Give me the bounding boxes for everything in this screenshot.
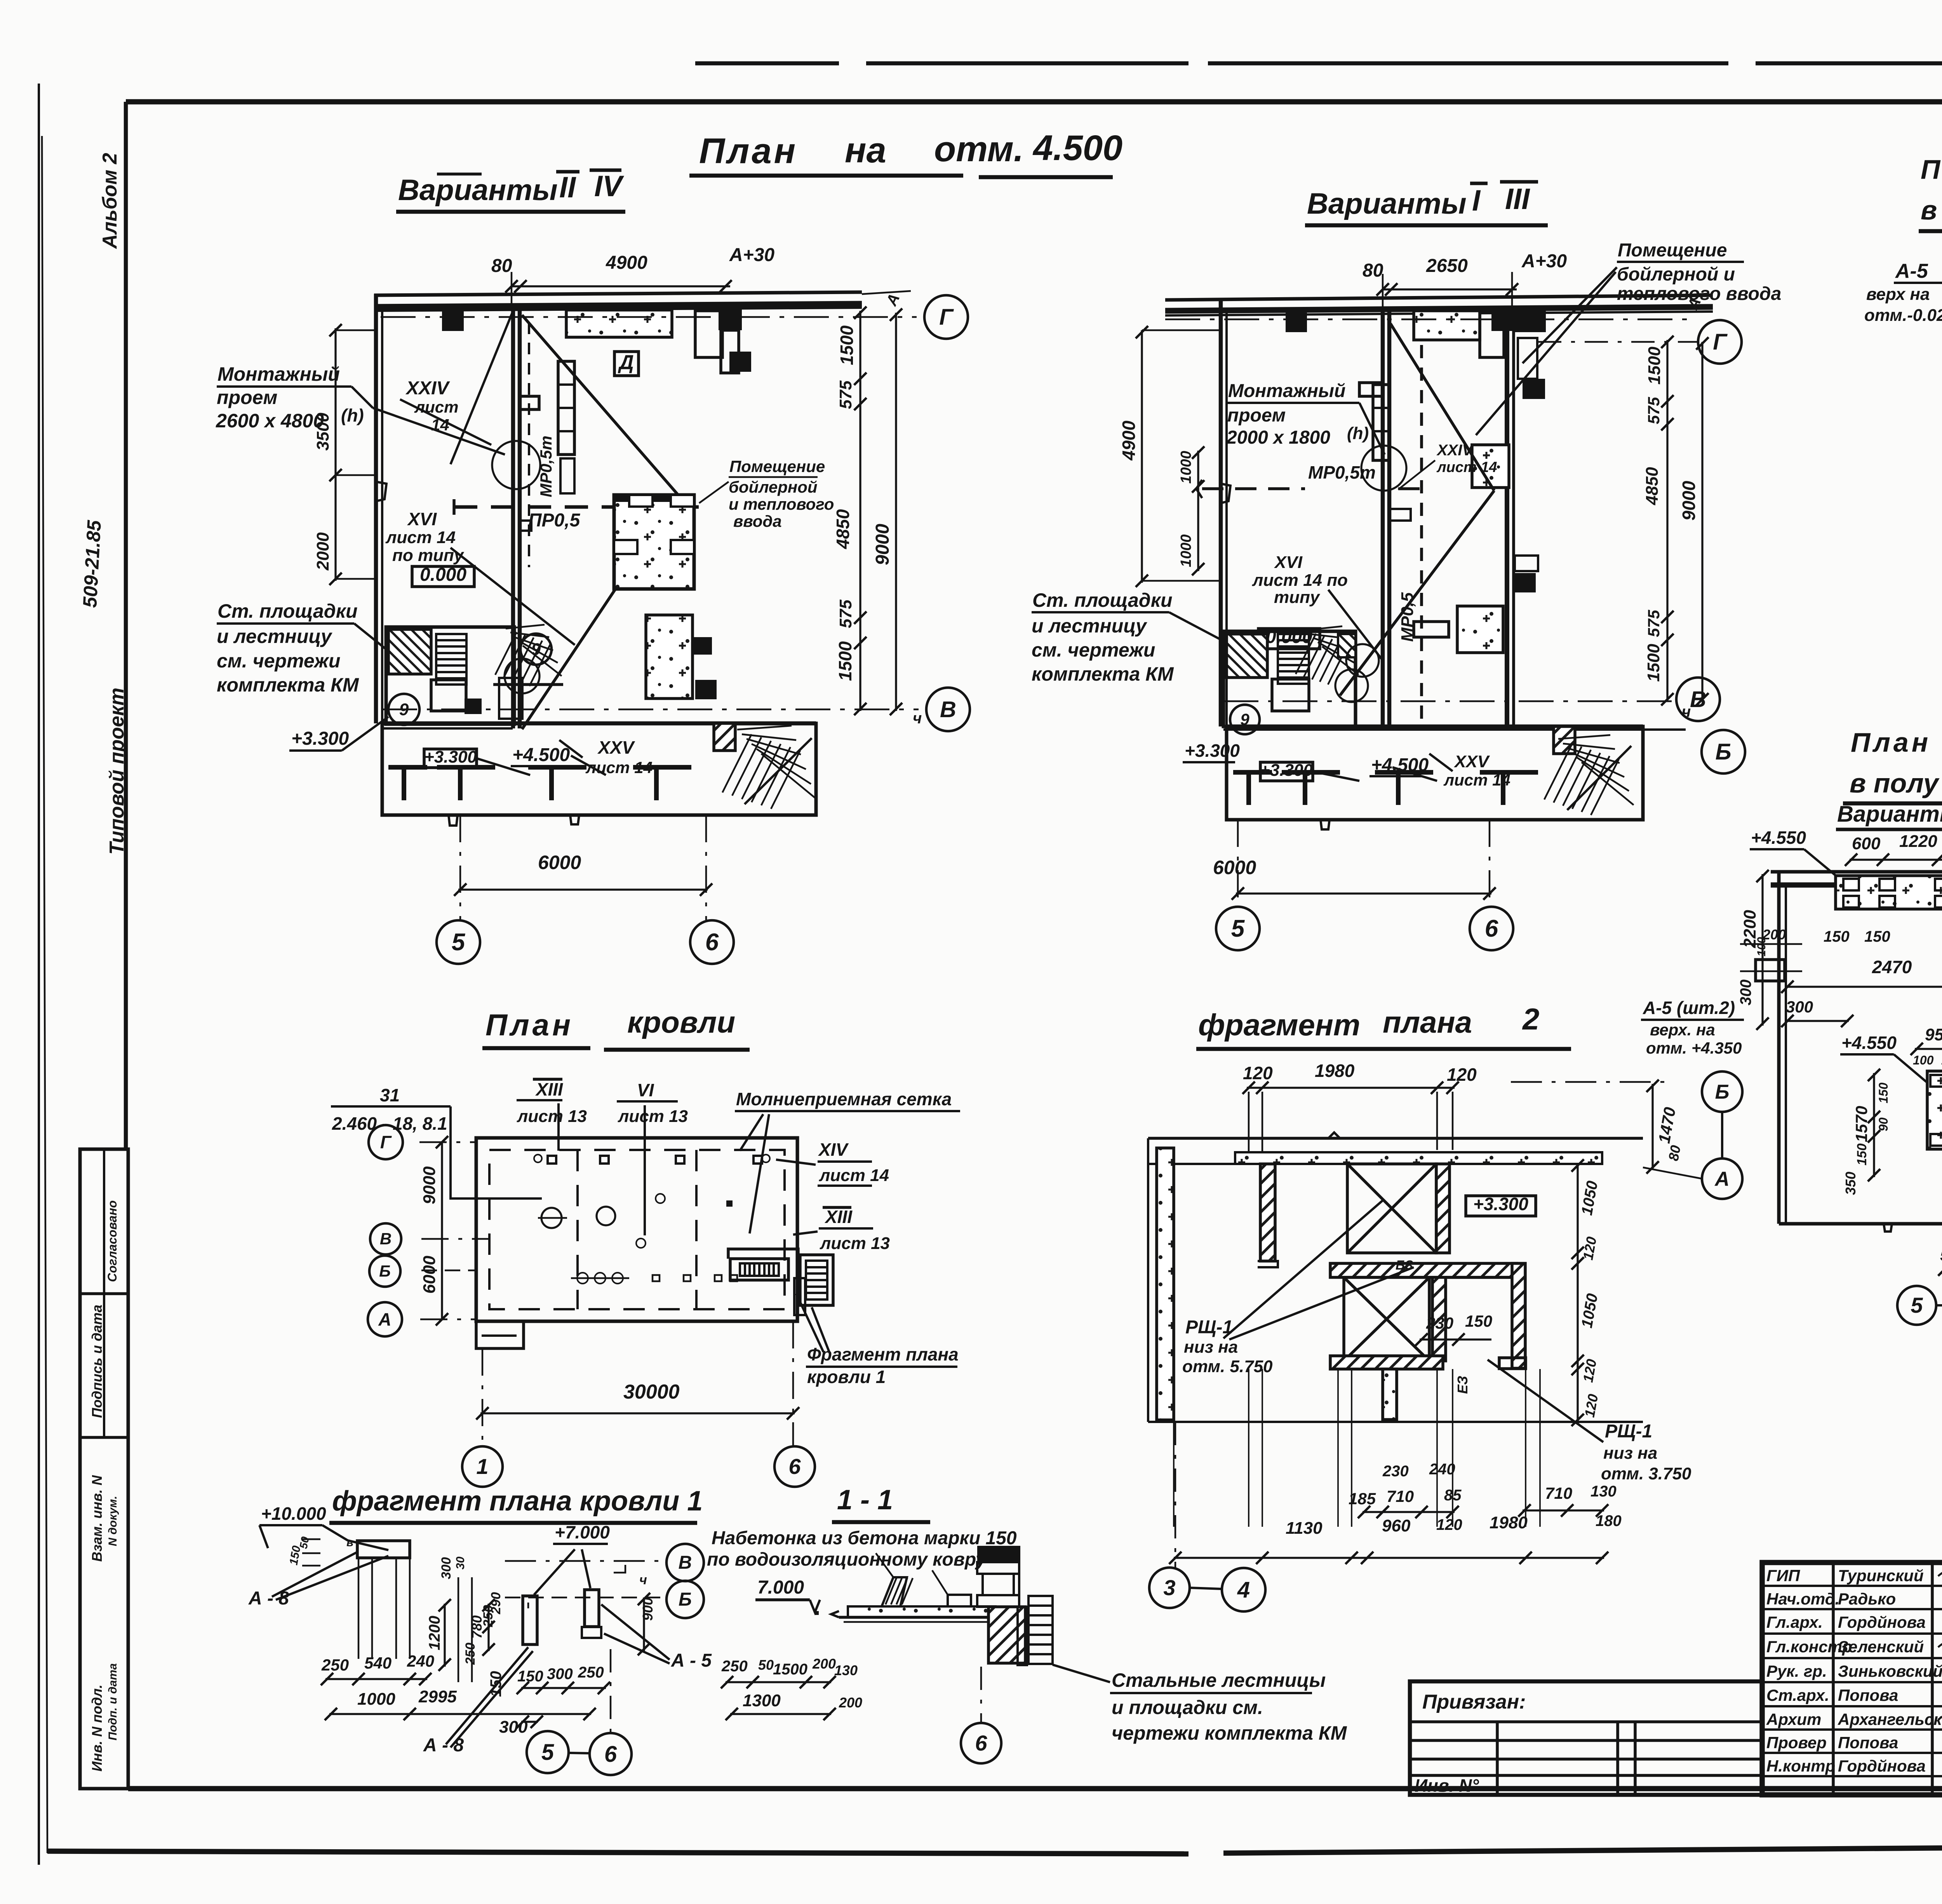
svg-text:1570: 1570 xyxy=(1852,1106,1871,1142)
svg-text:в полу на отм 0.00: в полу на отм 0.000 xyxy=(1921,195,1942,225)
svg-text:лист 13: лист 13 xyxy=(820,1234,890,1253)
svg-text:+3.300: +3.300 xyxy=(1260,761,1313,780)
svg-text:1980: 1980 xyxy=(1315,1061,1355,1081)
svg-text:Ст.арх.: Ст.арх. xyxy=(1766,1686,1829,1704)
svg-text:верх на: верх на xyxy=(1866,285,1930,304)
svg-text:5: 5 xyxy=(1911,1293,1923,1317)
svg-text:+4.500: +4.500 xyxy=(1371,755,1429,775)
svg-text:Туринский: Туринский xyxy=(1838,1566,1924,1585)
svg-text:200: 200 xyxy=(812,1656,836,1672)
svg-text:80: 80 xyxy=(1665,1144,1684,1162)
svg-text:1: 1 xyxy=(476,1454,488,1479)
svg-text:В: В xyxy=(679,1552,692,1573)
svg-text:верх. на: верх. на xyxy=(1650,1021,1715,1039)
svg-text:6: 6 xyxy=(788,1454,801,1479)
svg-text:лист 13: лист 13 xyxy=(517,1107,587,1126)
svg-text:плана: плана xyxy=(1383,1005,1472,1039)
svg-text:Альбом 2: Альбом 2 xyxy=(99,153,121,249)
svg-text:250: 250 xyxy=(321,1656,349,1674)
svg-text:+3.300: +3.300 xyxy=(424,747,477,766)
svg-text:лист: лист xyxy=(414,398,459,416)
svg-text:1000: 1000 xyxy=(1178,451,1194,484)
svg-text:31: 31 xyxy=(380,1085,400,1105)
svg-text:N докум.: N докум. xyxy=(106,1496,119,1546)
svg-text:575: 575 xyxy=(836,380,855,409)
svg-text:600: 600 xyxy=(1852,834,1881,853)
svg-text:XXV: XXV xyxy=(1453,752,1490,771)
svg-text:230: 230 xyxy=(1382,1463,1409,1480)
svg-text:180: 180 xyxy=(1596,1512,1622,1529)
svg-text:Попова: Попова xyxy=(1838,1686,1898,1704)
svg-text:План: План xyxy=(699,131,798,171)
svg-text:80: 80 xyxy=(1363,260,1383,281)
svg-text:лист 14: лист 14 xyxy=(819,1166,889,1185)
svg-text:теплового ввода: теплового ввода xyxy=(1617,284,1781,304)
svg-text:6000: 6000 xyxy=(420,1256,439,1294)
svg-text:Попова: Попова xyxy=(1838,1733,1898,1752)
svg-text:лист 14: лист 14 xyxy=(385,528,456,547)
svg-text:1500: 1500 xyxy=(837,325,857,365)
svg-text:(h): (h) xyxy=(341,405,364,425)
svg-text:9000: 9000 xyxy=(420,1166,439,1204)
svg-text:(h): (h) xyxy=(1347,424,1369,443)
svg-text:проем: проем xyxy=(1227,405,1286,426)
svg-text:Монтажный: Монтажный xyxy=(218,363,340,385)
svg-text:6: 6 xyxy=(975,1731,987,1755)
svg-text:на: на xyxy=(845,131,886,170)
svg-text:кровли: кровли xyxy=(627,1005,735,1039)
svg-text:130: 130 xyxy=(834,1662,858,1678)
svg-text:в: в xyxy=(346,1536,353,1549)
svg-text:300: 300 xyxy=(547,1665,573,1683)
svg-text:7.000: 7.000 xyxy=(757,1577,804,1598)
svg-text:II: II xyxy=(559,171,576,204)
svg-text:Подпись и дата: Подпись и дата xyxy=(89,1305,105,1418)
svg-text:А: А xyxy=(378,1309,391,1329)
svg-text:лист 14 по: лист 14 по xyxy=(1252,571,1348,590)
svg-text:1980: 1980 xyxy=(1490,1513,1528,1532)
svg-text:Гордйнова: Гордйнова xyxy=(1838,1757,1926,1775)
svg-text:150: 150 xyxy=(1824,928,1850,945)
svg-text:240: 240 xyxy=(1429,1461,1455,1478)
svg-text:Рук. гр.: Рук. гр. xyxy=(1766,1662,1827,1680)
svg-text:Н.контр: Н.контр xyxy=(1766,1757,1835,1775)
svg-text:IV: IV xyxy=(594,170,624,203)
svg-text:150: 150 xyxy=(1855,1143,1869,1165)
svg-text:150: 150 xyxy=(1876,1082,1890,1103)
svg-text:по водоизоляционному ковру: по водоизоляционному ковру xyxy=(707,1549,987,1570)
svg-text:230: 230 xyxy=(1426,1314,1453,1332)
svg-text:+10.000: +10.000 xyxy=(261,1503,326,1524)
svg-text:1500: 1500 xyxy=(835,641,855,681)
svg-text:III: III xyxy=(1505,183,1530,216)
svg-text:150: 150 xyxy=(1465,1312,1492,1330)
svg-text:120: 120 xyxy=(1447,1064,1477,1085)
svg-text:Д: Д xyxy=(618,351,634,374)
svg-text:2.460 - 18, 8.1: 2.460 - 18, 8.1 xyxy=(332,1113,447,1134)
svg-text:1500: 1500 xyxy=(1645,347,1664,385)
svg-text:Варианты: Варианты xyxy=(398,174,558,207)
svg-text:ч: ч xyxy=(913,710,922,727)
svg-text:проем: проем xyxy=(217,387,277,408)
svg-text:Г: Г xyxy=(1713,329,1728,355)
svg-text:50: 50 xyxy=(758,1657,774,1673)
svg-text:+3.300: +3.300 xyxy=(1473,1194,1528,1214)
svg-text:и лестницу: и лестницу xyxy=(1032,615,1147,637)
svg-text:VI: VI xyxy=(637,1080,654,1100)
svg-text:Монтажный: Монтажный xyxy=(1228,381,1345,401)
svg-text:+4.550: +4.550 xyxy=(1841,1033,1897,1053)
svg-text:4900: 4900 xyxy=(606,253,647,273)
svg-text:Помещение: Помещение xyxy=(729,457,825,476)
svg-text:фрагмент: фрагмент xyxy=(1198,1008,1360,1042)
svg-text:В: В xyxy=(940,697,956,722)
svg-text:Радько: Радько xyxy=(1838,1590,1896,1608)
svg-text:чертежи комплекта КМ: чертежи комплекта КМ xyxy=(1112,1722,1347,1744)
svg-text:+4.550: +4.550 xyxy=(1751,827,1806,848)
svg-text:2000: 2000 xyxy=(313,532,332,571)
svg-text:Молниеприемная сетка: Молниеприемная сетка xyxy=(736,1089,952,1109)
svg-text:комплекта КМ: комплекта КМ xyxy=(1032,663,1174,685)
svg-text:710: 710 xyxy=(1545,1484,1572,1502)
svg-text:4850: 4850 xyxy=(1643,467,1662,505)
svg-text:1220: 1220 xyxy=(1899,832,1937,851)
svg-text:Б: Б xyxy=(679,1589,692,1610)
svg-text:+4.500: +4.500 xyxy=(512,745,570,765)
svg-text:2470: 2470 xyxy=(1872,957,1912,977)
svg-text:1130: 1130 xyxy=(1286,1519,1323,1538)
svg-text:5: 5 xyxy=(1231,915,1245,942)
svg-text:лист 14: лист 14 xyxy=(585,758,653,777)
svg-text:Гордйнова: Гордйнова xyxy=(1838,1613,1926,1631)
svg-text:1300: 1300 xyxy=(743,1691,781,1710)
svg-text:План закладных деталей: План закладных деталей xyxy=(1921,154,1942,185)
svg-text:отм. +4.350: отм. +4.350 xyxy=(1646,1039,1742,1057)
svg-text:120: 120 xyxy=(1436,1516,1462,1533)
svg-text:100: 100 xyxy=(1913,1053,1934,1067)
svg-text:Гл.арх.: Гл.арх. xyxy=(1766,1613,1823,1631)
svg-text:710: 710 xyxy=(1387,1487,1414,1505)
svg-text:Взам. инв. N: Взам. инв. N xyxy=(89,1475,105,1562)
svg-text:6: 6 xyxy=(1485,915,1498,942)
svg-text:Ст. площадки: Ст. площадки xyxy=(1032,589,1173,611)
svg-text:План: План xyxy=(486,1008,574,1042)
svg-text:130: 130 xyxy=(1590,1483,1617,1500)
svg-text:250: 250 xyxy=(463,1643,478,1665)
svg-text:960: 960 xyxy=(1382,1516,1411,1535)
svg-text:4850: 4850 xyxy=(833,509,853,549)
svg-text:6: 6 xyxy=(705,929,719,956)
svg-text:9000: 9000 xyxy=(1679,481,1699,521)
svg-text:1000: 1000 xyxy=(357,1690,395,1709)
svg-text:Подп. и дата: Подп. и дата xyxy=(106,1663,119,1740)
svg-text:2000 х 1800: 2000 х 1800 xyxy=(1226,427,1330,448)
svg-text:Нач.отд.: Нач.отд. xyxy=(1766,1590,1839,1608)
svg-text:30000: 30000 xyxy=(623,1381,680,1403)
svg-text:+3.300: +3.300 xyxy=(1185,740,1240,761)
svg-text:Привязан:: Привязан: xyxy=(1422,1691,1526,1713)
svg-text:Зеленский: Зеленский xyxy=(1838,1637,1924,1656)
svg-text:Помещение: Помещение xyxy=(1618,240,1727,261)
svg-text:отм.-0.020: отм.-0.020 xyxy=(1864,306,1942,325)
svg-text:А+30: А+30 xyxy=(729,245,774,265)
svg-text:А - 5: А - 5 xyxy=(671,1650,712,1671)
svg-text:XXIV: XXIV xyxy=(405,378,450,399)
svg-text:низ на: низ на xyxy=(1603,1444,1657,1463)
svg-text:в полу на отм. 4.500: в полу на отм. 4.500 xyxy=(1850,768,1942,798)
svg-text:2: 2 xyxy=(1522,1002,1539,1036)
svg-text:А+30: А+30 xyxy=(1521,251,1567,272)
svg-text:отм. 3.750: отм. 3.750 xyxy=(1601,1464,1691,1483)
svg-text:Г: Г xyxy=(939,305,954,330)
svg-text:Набетонка из бетона марки 150: Набетонка из бетона марки 150 xyxy=(712,1528,1017,1549)
svg-text:+3.300: +3.300 xyxy=(291,728,349,749)
svg-text:240: 240 xyxy=(407,1652,434,1670)
svg-text:150: 150 xyxy=(1864,928,1890,945)
svg-text:XIV: XIV xyxy=(818,1139,849,1160)
svg-text:кровли 1: кровли 1 xyxy=(807,1367,886,1387)
svg-text:575: 575 xyxy=(836,599,855,628)
svg-text:575: 575 xyxy=(1644,397,1663,424)
svg-text:ГИП: ГИП xyxy=(1766,1566,1800,1585)
svg-text:I: I xyxy=(1472,184,1481,217)
svg-text:лист 13: лист 13 xyxy=(618,1107,688,1126)
svg-text:и теплового: и теплового xyxy=(729,495,834,513)
svg-text:Варианты: Варианты xyxy=(1307,187,1467,220)
svg-text:150: 150 xyxy=(517,1668,543,1685)
svg-text:9000: 9000 xyxy=(872,524,893,565)
svg-text:Б: Б xyxy=(1715,739,1731,765)
svg-text:лист 14: лист 14 xyxy=(1436,459,1497,476)
svg-text:отм.: отм. xyxy=(934,129,1023,169)
svg-text:550: 550 xyxy=(1940,1246,1942,1265)
svg-text:2200: 2200 xyxy=(1740,910,1759,948)
svg-text:комплекта КМ: комплекта КМ xyxy=(217,674,359,696)
svg-text:300: 300 xyxy=(1786,998,1813,1016)
svg-text:бойлерной: бойлерной xyxy=(729,478,818,496)
svg-text:и площадки см.: и площадки см. xyxy=(1112,1697,1263,1718)
svg-text:по типу: по типу xyxy=(392,546,465,565)
svg-text:3: 3 xyxy=(1163,1575,1175,1600)
svg-text:30: 30 xyxy=(454,1556,467,1570)
svg-text:В: В xyxy=(380,1230,392,1248)
svg-text:XIII: XIII xyxy=(824,1207,853,1227)
svg-text:0.000: 0.000 xyxy=(420,564,466,585)
svg-text:540: 540 xyxy=(364,1654,392,1672)
svg-text:1000: 1000 xyxy=(1178,534,1194,567)
svg-text:1500: 1500 xyxy=(773,1661,807,1678)
svg-text:Г: Г xyxy=(380,1132,392,1152)
svg-text:50: 50 xyxy=(297,1536,311,1550)
svg-text:120: 120 xyxy=(1243,1063,1273,1083)
svg-text:ПР0,5: ПР0,5 xyxy=(528,510,581,531)
svg-text:4900: 4900 xyxy=(1119,420,1139,461)
svg-text:А: А xyxy=(1714,1168,1730,1190)
svg-text:бойлерной и: бойлерной и xyxy=(1617,264,1735,285)
svg-text:XIII: XIII xyxy=(535,1079,563,1099)
svg-text:4: 4 xyxy=(1237,1577,1250,1603)
svg-text:Согласовано: Согласовано xyxy=(105,1200,119,1282)
svg-text:2650: 2650 xyxy=(1426,256,1468,276)
svg-text:185: 185 xyxy=(1349,1489,1376,1508)
svg-text:90: 90 xyxy=(1876,1117,1890,1131)
svg-text:1500: 1500 xyxy=(1644,644,1663,682)
svg-text:200: 200 xyxy=(839,1695,862,1711)
svg-text:1 - 1: 1 - 1 xyxy=(837,1484,893,1516)
svg-text:6000: 6000 xyxy=(538,852,581,873)
svg-text:2995: 2995 xyxy=(418,1687,457,1706)
svg-text:85: 85 xyxy=(1444,1487,1462,1504)
svg-text:250: 250 xyxy=(578,1664,604,1681)
svg-text:350: 350 xyxy=(1843,1172,1858,1195)
svg-text:950: 950 xyxy=(1925,1025,1942,1044)
svg-text:Зиньковский: Зиньковский xyxy=(1838,1662,1942,1680)
svg-text:отм. 5.750: отм. 5.750 xyxy=(1182,1357,1273,1376)
svg-text:Варианты: Варианты xyxy=(1837,801,1942,827)
svg-text:ввода: ввода xyxy=(733,512,782,530)
svg-text:и лестницу: и лестницу xyxy=(217,625,332,647)
svg-text:9: 9 xyxy=(531,640,541,659)
svg-text:типу: типу xyxy=(1274,588,1321,607)
svg-text:1200: 1200 xyxy=(426,1616,443,1650)
svg-text:ч: ч xyxy=(1682,703,1691,720)
svg-text:А-5 (шт.2): А-5 (шт.2) xyxy=(1643,998,1735,1018)
svg-text:2600 х 4800: 2600 х 4800 xyxy=(216,410,324,432)
svg-text:Инв. N°: Инв. N° xyxy=(1415,1775,1479,1796)
svg-text:575: 575 xyxy=(1644,610,1663,637)
svg-text:ЕЗ: ЕЗ xyxy=(1455,1376,1470,1394)
svg-text:4.500: 4.500 xyxy=(1032,128,1122,168)
svg-text:300: 300 xyxy=(1737,979,1754,1005)
svg-text:6000: 6000 xyxy=(1213,857,1256,878)
svg-text:см. чертежи: см. чертежи xyxy=(1032,639,1155,661)
svg-text:А-5: А-5 xyxy=(1895,260,1928,282)
svg-text:250: 250 xyxy=(721,1658,748,1675)
svg-text:Ст. площадки: Ст. площадки xyxy=(218,600,358,622)
svg-text:300: 300 xyxy=(439,1557,454,1579)
svg-text:80: 80 xyxy=(491,256,512,276)
svg-text:План закладных деталей: План закладных деталей xyxy=(1851,727,1942,758)
svg-text:509-21.85: 509-21.85 xyxy=(79,519,105,608)
svg-text:МР0,5: МР0,5 xyxy=(1398,592,1417,642)
svg-text:+7.000: +7.000 xyxy=(555,1522,610,1542)
svg-text:лист 14: лист 14 xyxy=(1443,771,1510,789)
svg-text:РЩ-1: РЩ-1 xyxy=(1185,1317,1233,1338)
svg-text:см. чертежи: см. чертежи xyxy=(217,650,340,672)
svg-text:ч: ч xyxy=(639,1573,647,1587)
svg-text:Б: Б xyxy=(379,1262,391,1280)
svg-text:Архит: Архит xyxy=(1766,1710,1821,1728)
svg-text:РЩ-1: РЩ-1 xyxy=(1605,1421,1652,1442)
svg-text:Провер: Провер xyxy=(1766,1733,1827,1752)
svg-text:Б: Б xyxy=(1715,1081,1730,1103)
svg-text:5: 5 xyxy=(541,1740,554,1765)
svg-text:Инв. N подл.: Инв. N подл. xyxy=(89,1685,105,1772)
svg-text:XXV: XXV xyxy=(597,737,635,758)
svg-text:Архангельская: Архангельская xyxy=(1838,1710,1942,1728)
svg-text:Фрагмент плана: Фрагмент плана xyxy=(807,1344,959,1364)
svg-text:6: 6 xyxy=(604,1742,617,1767)
svg-text:XVI: XVI xyxy=(407,509,437,529)
svg-text:5: 5 xyxy=(452,929,466,956)
svg-text:XVI: XVI xyxy=(1274,553,1303,572)
svg-text:Стальные лестницы: Стальные лестницы xyxy=(1112,1669,1326,1691)
svg-text:XXIV: XXIV xyxy=(1436,442,1474,459)
svg-text:фрагмент плана кровли 1: фрагмент плана кровли 1 xyxy=(332,1486,703,1517)
svg-text:Типовой проект: Типовой проект xyxy=(106,688,128,855)
